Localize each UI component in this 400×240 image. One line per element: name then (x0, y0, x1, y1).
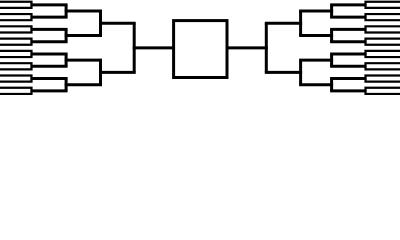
wire: left final line into center box (133, 46, 174, 49)
wire: right round-4 line 1 (265, 22, 302, 25)
wire: right round-2 line 3 (330, 28, 367, 31)
wire: right round-2 vertical 1 (330, 5, 333, 17)
wire: left round-1 pair 6 leaf lines + vertical (0, 63, 32, 69)
wire: right round-1 pair 4 leaf lines + vertical (366, 39, 400, 45)
wire: right round-1 pair 7 leaf lines + vertical (366, 75, 400, 81)
wire: left round-2 vertical 3 (65, 54, 68, 66)
wire: right round-3 line 4 (299, 83, 333, 86)
wire: left round-3 vertical 1 (99, 11, 102, 36)
diagram: 32-leaf tournament bracket converging to center box (0, 0, 400, 98)
wire: right round-1 pair 8 leaf lines + vertical (366, 88, 400, 94)
wire: left round-1 pair 5 leaf lines + vertical (0, 51, 32, 57)
wire: left round-2 line 6 (30, 65, 67, 68)
node: center championship box (174, 21, 227, 78)
wire: left round-2 vertical 1 (65, 5, 68, 17)
wire: right round-2 vertical 3 (330, 54, 333, 66)
wire: right round-4 line 2 (265, 71, 302, 74)
wire: right round-1 pair 1 leaf lines + vertical (366, 2, 400, 8)
wire: right round-1 pair 5 leaf lines + vertical (366, 51, 400, 57)
wire: left round-4 line 2 (99, 71, 136, 74)
wire: left round-2 line 5 (30, 52, 67, 55)
wire: right round-3 vertical 2 (299, 60, 302, 85)
wire: left round-2 line 4 (30, 40, 67, 43)
wire: left round-1 pair 3 leaf lines + vertical (0, 26, 32, 32)
wire: right round-3 line 1 (299, 9, 333, 12)
wire: right round-1 pair 3 leaf lines + vertical (366, 26, 400, 32)
wire: right round-4 vertical (265, 23, 268, 72)
wire: right round-2 line 1 (330, 3, 367, 6)
wire: right round-2 line 4 (330, 40, 367, 43)
wire: left round-2 vertical 4 (65, 79, 68, 91)
wire: right round-3 line 3 (299, 59, 333, 62)
wire: left round-2 vertical 2 (65, 29, 68, 41)
wire: left round-3 line 2 (65, 34, 102, 37)
wire: left round-1 pair 4 leaf lines + vertical (0, 39, 32, 45)
wire: right round-2 line 6 (330, 65, 367, 68)
wire: right round-2 vertical 4 (330, 79, 333, 91)
wire: left round-2 line 3 (30, 28, 67, 31)
wire: right round-1 pair 2 leaf lines + vertical (366, 14, 400, 20)
wire: left round-1 pair 1 leaf lines + vertical (0, 2, 32, 8)
wire: left round-2 line 1 (30, 3, 67, 6)
wire: right round-2 line 8 (330, 89, 367, 92)
wire: left round-1 pair 8 leaf lines + vertical (0, 88, 32, 94)
wire: left round-2 line 7 (30, 77, 67, 80)
wire: right round-2 vertical 2 (330, 29, 333, 41)
wire: left round-3 line 1 (65, 9, 102, 12)
wire: left round-1 pair 7 leaf lines + vertical (0, 75, 32, 81)
wire: left round-4 line 1 (99, 22, 136, 25)
wire: right round-1 pair 6 leaf lines + vertical (366, 63, 400, 69)
wire: left round-3 line 3 (65, 59, 102, 62)
wire: left round-2 line 2 (30, 16, 67, 19)
wire: left round-2 line 8 (30, 89, 67, 92)
wire: right round-3 vertical 1 (299, 11, 302, 36)
wire: right round-2 line 2 (330, 16, 367, 19)
wire: right round-2 line 7 (330, 77, 367, 80)
wire: left round-3 line 4 (65, 83, 102, 86)
wire: right round-2 line 5 (330, 52, 367, 55)
wire: left round-1 pair 2 leaf lines + vertical (0, 14, 32, 20)
wire: right round-3 line 2 (299, 34, 333, 37)
wire: right final line into center box (227, 46, 268, 49)
wire: left round-3 vertical 2 (99, 60, 102, 85)
wire: left round-4 vertical (133, 23, 136, 72)
